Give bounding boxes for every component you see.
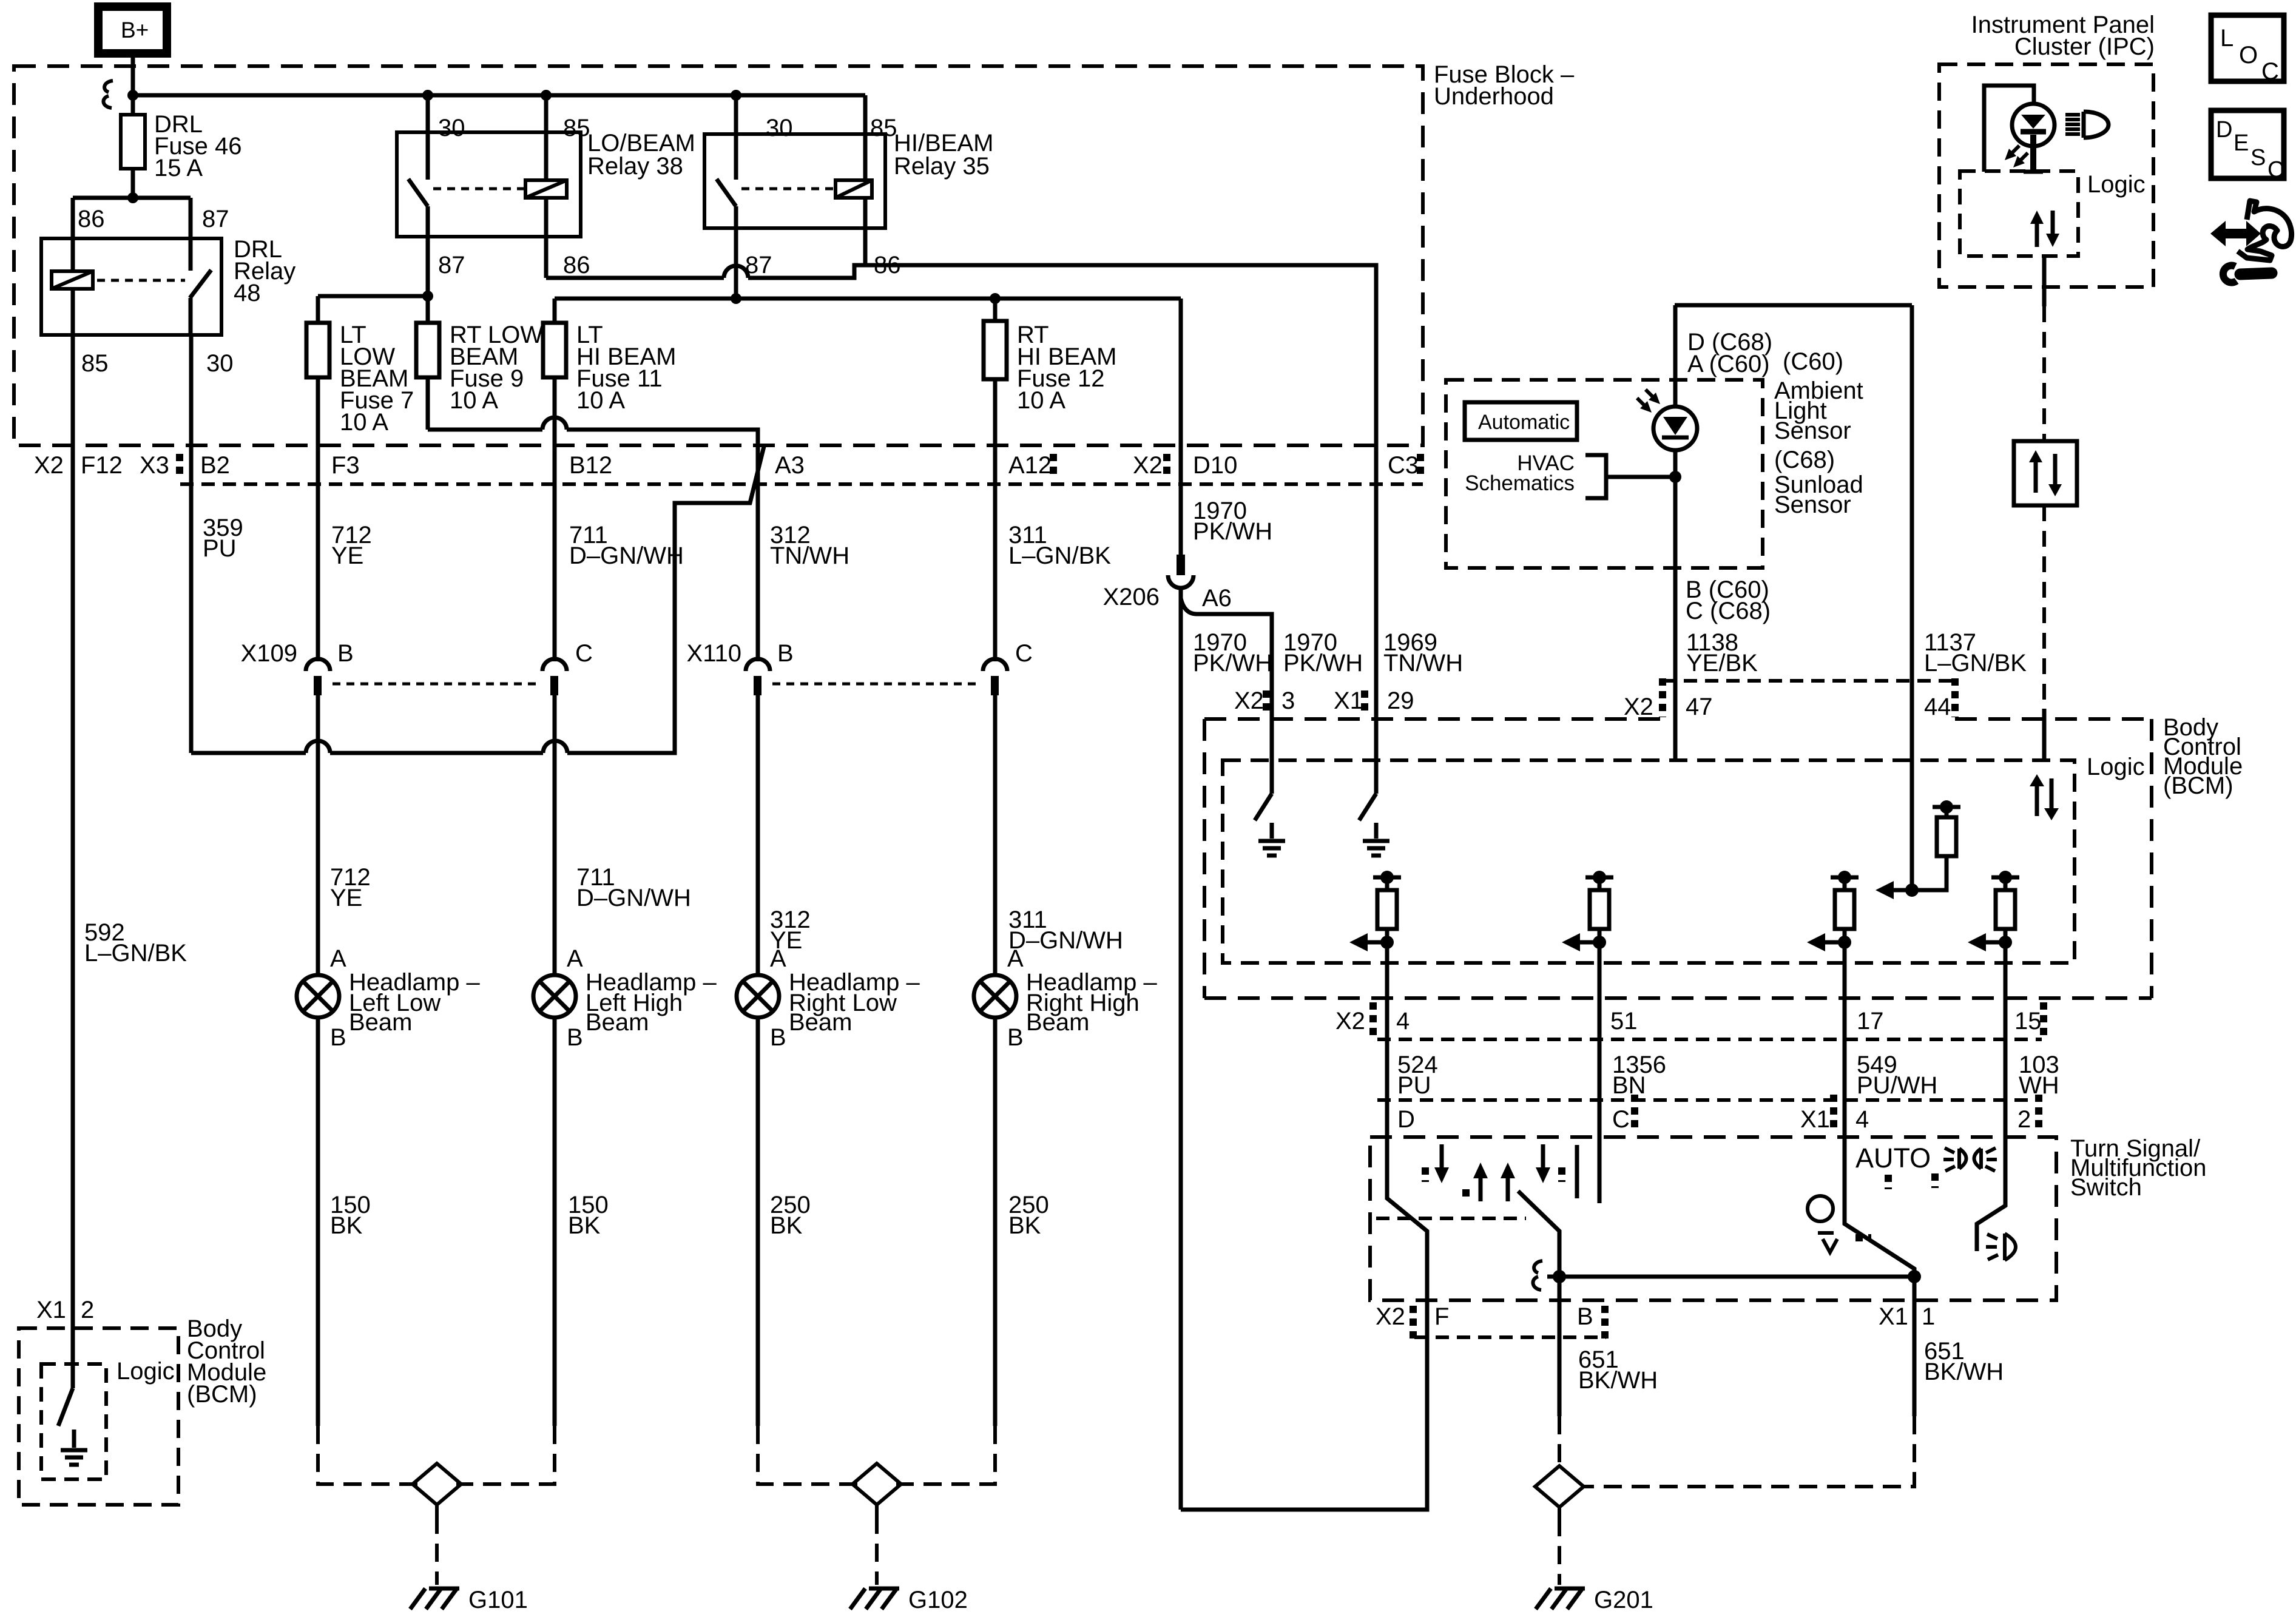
connector X110 pin B: [746, 659, 770, 695]
svg-text:D–GN/WH: D–GN/WH: [569, 542, 684, 569]
wire 359 crossover loop: [191, 447, 764, 753]
icon service double arrow: [2210, 221, 2261, 246]
svg-text:D: D: [2216, 117, 2232, 143]
svg-text:A (C60): A (C60): [1687, 351, 1770, 377]
svg-text:10 A: 10 A: [576, 387, 625, 414]
svg-text:PU: PU: [203, 535, 237, 562]
svg-text:85: 85: [870, 115, 897, 141]
connector X2 output labels: [1335, 1008, 2042, 1035]
svg-text:30: 30: [766, 115, 793, 141]
svg-text:E: E: [2234, 130, 2249, 156]
sensor box ambient light / sunload: [1675, 303, 1912, 308]
svg-text:YE/BK: YE/BK: [1686, 650, 1758, 677]
svg-text:C: C: [1612, 1106, 1630, 1133]
connector tick X1-4: [1830, 1095, 1837, 1127]
relay K35 switch blade: [717, 179, 736, 228]
resistor BCM driver for pin44: [1876, 800, 1960, 899]
connector tick X2-3: [1263, 690, 1270, 716]
connector X109 pin C: [542, 659, 567, 695]
svg-text:PU/WH: PU/WH: [1857, 1072, 1937, 1099]
label 312 TN/WH: [770, 522, 849, 569]
svg-text:Automatic: Automatic: [1478, 411, 1570, 434]
relay K38 switch blade: [408, 179, 428, 237]
connector X110 pin C: [983, 659, 1007, 695]
svg-text:B: B: [1577, 1303, 1593, 1330]
svg-text:Cluster (IPC): Cluster (IPC): [2014, 33, 2155, 60]
svg-text:Relay 38: Relay 38: [587, 153, 683, 180]
wire serial data link: [2042, 256, 2047, 441]
svg-text:Beam: Beam: [586, 1009, 649, 1036]
wire B+ feed: [131, 53, 135, 198]
connector labels X2 3: [1234, 687, 1295, 714]
svg-text:17: 17: [1857, 1008, 1884, 1035]
wire serial link to BCM: [2042, 505, 2046, 760]
connector switch input labels: [1397, 1106, 2031, 1133]
svg-text:X110: X110: [687, 640, 741, 667]
wire switch pin 2 stub: [1977, 1100, 2005, 1251]
wire 651 BK/WH left: [1559, 1277, 1658, 1466]
connector tick 15: [2040, 1002, 2047, 1035]
svg-text:30: 30: [438, 115, 465, 141]
icon headlamp IPC: [2065, 112, 2109, 138]
switch auto blade: [1845, 1100, 1914, 1277]
svg-text:85: 85: [81, 350, 109, 377]
connector X206 inline: [1103, 555, 1232, 612]
wire dashed splice to G101: [435, 1516, 439, 1585]
svg-text:X1: X1: [1334, 687, 1363, 714]
relay K48 switch: [190, 238, 211, 335]
svg-text:F12: F12: [81, 452, 123, 479]
svg-text:2: 2: [2017, 1106, 2031, 1133]
connector tick X1-29: [1361, 690, 1368, 716]
wire to relay48 pin86: [71, 198, 75, 238]
lamp Headlamp Left High Beam: [533, 945, 717, 1051]
fuse F9 RT LOW BEAM Fuse 9: [416, 322, 543, 414]
splice diamond at G102: [853, 1463, 901, 1505]
BCM2 switch blade: [58, 1388, 73, 1426]
svg-text:BN: BN: [1612, 1072, 1646, 1099]
wire 359 B2 down: [189, 335, 194, 753]
switch AUTO contact: [1808, 1143, 1931, 1252]
svg-text:85: 85: [563, 115, 590, 141]
wire fuse11 output: [553, 377, 557, 445]
svg-text:O: O: [2239, 42, 2258, 69]
svg-text:10 A: 10 A: [450, 387, 498, 414]
sensor pin labels D A: [1687, 329, 1843, 377]
BCM2 label: [187, 1315, 266, 1408]
switch headlamp blade: [1518, 1191, 1559, 1277]
fuse block label: [1434, 61, 1575, 110]
svg-text:A: A: [567, 945, 583, 972]
svg-text:87: 87: [202, 206, 229, 232]
svg-text:L–GN/BK: L–GN/BK: [1008, 542, 1111, 569]
svg-text:10 A: 10 A: [340, 409, 388, 436]
HVAC dashed box: [1446, 380, 1763, 568]
svg-text:B: B: [1007, 1024, 1024, 1051]
wire fuse12 output: [993, 379, 998, 445]
svg-text:10 A: 10 A: [1017, 387, 1065, 414]
wire 1969 TN/WH to BCM pin 29: [1374, 445, 1379, 794]
BCM1 serial data arrows: [2030, 774, 2059, 820]
wire 592 F12 down: [71, 335, 75, 1388]
BCM2 logic dashed box: [41, 1358, 175, 1479]
svg-text:X109: X109: [241, 640, 297, 667]
svg-text:A: A: [1007, 945, 1024, 972]
relay K35 pin labels: [745, 115, 901, 279]
svg-text:A12: A12: [1008, 452, 1052, 479]
svg-text:15: 15: [2014, 1008, 2042, 1035]
switch contact stub: [1575, 1145, 1579, 1198]
label 712 YE first: [331, 522, 372, 569]
svg-text:X3: X3: [140, 452, 169, 479]
relay K48 coil: [52, 238, 93, 335]
lamp Headlamp Right High Beam: [974, 945, 1157, 1051]
BCM1 logic dashed box: [1223, 754, 2145, 963]
svg-text:Sensor: Sensor: [1774, 417, 1851, 444]
svg-text:X1: X1: [36, 1297, 66, 1323]
svg-text:Logic: Logic: [116, 1358, 175, 1385]
resistor BCM driver at 3040: [1807, 871, 1859, 951]
svg-text:Beam: Beam: [1026, 1009, 1090, 1036]
svg-text:B: B: [770, 1024, 786, 1051]
connector tick C: [1631, 1095, 1638, 1127]
svg-text:F: F: [1434, 1303, 1449, 1330]
relay K38 LO/BEAM Relay 38 box: [397, 130, 695, 237]
label 1970 PK/WH branch: [1283, 629, 1363, 677]
relay K48 DRL Relay 48 box: [41, 236, 295, 335]
svg-text:Beam: Beam: [349, 1009, 413, 1036]
wire relay coils control line to C3: [546, 265, 1376, 445]
sensor labels: [1774, 377, 1863, 518]
svg-text:C: C: [2261, 58, 2279, 85]
svg-text:4: 4: [1396, 1008, 1410, 1035]
svg-text:Logic: Logic: [2087, 754, 2145, 780]
label 1970 PK/WH at D10: [1193, 498, 1272, 545]
connector tick X2-D10: [1163, 454, 1170, 479]
svg-text:3: 3: [1281, 687, 1295, 714]
svg-text:86: 86: [563, 252, 590, 279]
serial data gateway box: [2014, 441, 2077, 505]
connector tick 2: [2035, 1095, 2042, 1127]
DESC reference box: [2211, 110, 2284, 183]
svg-text:L–GN/BK: L–GN/BK: [1924, 650, 2027, 677]
wire 311 D-GN/WH to lamp: [995, 695, 1123, 975]
connector X1 pin 2 labels: [36, 1297, 94, 1323]
relay K35 HI/BEAM Relay 35 box: [704, 130, 993, 228]
indicator lamp LED: [1984, 86, 2055, 172]
ground BCM1 pin3 internal: [1258, 823, 1285, 856]
connector bottom row line: [1414, 1335, 1606, 1339]
label 1356 BN: [1612, 1052, 1666, 1099]
connector bottom row labels: [1376, 1303, 1935, 1330]
wire to relay48 pin87: [189, 198, 193, 238]
svg-text:Sensor: Sensor: [1774, 491, 1851, 518]
svg-text:X2: X2: [34, 452, 64, 479]
lamp Headlamp Left Low Beam: [297, 945, 480, 1051]
wire 651 BK/WH right: [1584, 1277, 2004, 1487]
svg-text:2: 2: [81, 1297, 94, 1323]
connector X109 pin B: [306, 659, 330, 695]
svg-text:B: B: [567, 1024, 583, 1051]
svg-text:A3: A3: [775, 452, 805, 479]
connector tick B: [1601, 1306, 1609, 1338]
svg-text:D: D: [1397, 1106, 1415, 1133]
svg-text:G101: G101: [468, 1587, 528, 1613]
wire 712 down to X109: [316, 445, 320, 661]
svg-text:TN/WH: TN/WH: [1383, 650, 1463, 677]
wire D10 feed: [1179, 299, 1183, 445]
IPC instrument panel cluster dashed box: [1939, 12, 2155, 287]
BCM1 switch blade pin3: [1255, 794, 1272, 820]
connector tick X3: [176, 454, 183, 479]
svg-text:X2: X2: [1234, 687, 1264, 714]
ground BCM2 internal: [61, 1430, 87, 1465]
svg-text:51: 51: [1610, 1008, 1638, 1035]
svg-text:A: A: [330, 945, 346, 972]
svg-text:PK/WH: PK/WH: [1193, 518, 1272, 545]
relay K35 actuator dashed link: [741, 187, 836, 191]
fuse F7 LT LOW BEAM Fuse 7: [306, 322, 414, 436]
ground BCM1 pin29 internal: [1363, 823, 1389, 856]
svg-text:C: C: [1015, 640, 1033, 667]
splice diamond at G201: [1535, 1466, 1584, 1507]
svg-text:D10: D10: [1193, 452, 1237, 479]
connector tick X2-4: [1369, 1002, 1377, 1035]
svg-text:Beam: Beam: [789, 1009, 853, 1036]
svg-text:AUTO: AUTO: [1855, 1143, 1931, 1173]
svg-text:X1: X1: [1800, 1106, 1830, 1133]
wire 150 BK left low: [318, 1018, 371, 1426]
icon headlamp flash: [1935, 1148, 1997, 1188]
label 1969 TN/WH: [1383, 629, 1463, 677]
wire hi-beam fuse feed line: [555, 293, 1181, 304]
svg-text:B: B: [777, 640, 794, 667]
svg-text:B2: B2: [200, 452, 230, 479]
svg-text:BK: BK: [568, 1212, 601, 1239]
connector X110 labels: [687, 640, 1033, 667]
connector X2 output row: [1377, 1038, 2042, 1041]
wire switch pin C: [1598, 1100, 1602, 1203]
svg-text:1: 1: [1922, 1303, 1935, 1330]
label 1970 PK/WH splice side: [1193, 629, 1272, 677]
svg-text:(BCM): (BCM): [2163, 772, 2234, 799]
wire dashed to splice G102: [758, 1426, 995, 1484]
svg-text:B+: B+: [121, 18, 149, 42]
BCM1 body control module dashed box: [1204, 714, 2243, 998]
fuse F11 LT HI BEAM Fuse 11: [543, 299, 676, 414]
BCM2 body control module dashed box: [19, 1328, 178, 1505]
wire 1138 YE/BK: [1675, 450, 1771, 760]
wire continuation curl: [103, 81, 113, 108]
svg-text:BK: BK: [1008, 1212, 1041, 1239]
wire dashed to splice G101: [318, 1426, 555, 1484]
wire 711 D-GN/WH to lamp: [555, 695, 691, 975]
wire fuse7 output: [316, 377, 320, 445]
svg-text:(C60): (C60): [1783, 348, 1843, 375]
svg-text:BK/WH: BK/WH: [1924, 1359, 2004, 1385]
LOC reference box: [2211, 15, 2284, 85]
wire top bus: [127, 90, 865, 101]
label 359 PU: [203, 515, 243, 562]
connector X2 47/44 dotted row: [1624, 678, 1955, 720]
label 524 PU: [1397, 1052, 1438, 1099]
relay K38 pin 30 stub: [426, 95, 430, 180]
svg-text:BK: BK: [330, 1212, 363, 1239]
svg-text:C (C68): C (C68): [1686, 598, 1771, 624]
wire fuse9 output cross line: [428, 377, 758, 445]
svg-text:Logic: Logic: [2087, 171, 2146, 198]
svg-text:Relay 35: Relay 35: [894, 153, 990, 180]
photodiode ambient light sensor: [1637, 305, 1697, 450]
wire switch pin D: [1181, 1100, 1427, 1510]
fuse F46 DRL Fuse 46 15A: [121, 111, 242, 181]
svg-text:Underhood: Underhood: [1434, 83, 1554, 110]
svg-text:X206: X206: [1103, 584, 1160, 610]
connector X109 dashed link: [333, 683, 541, 686]
connector row line X3: [180, 482, 1423, 486]
svg-text:C: C: [2267, 157, 2284, 183]
wire 712 YE to lamp: [318, 695, 371, 975]
svg-text:4: 4: [1855, 1106, 1869, 1133]
svg-text:(BCM): (BCM): [187, 1381, 257, 1408]
label 311 L-GN/BK: [1008, 522, 1111, 569]
ground G101: [410, 1587, 528, 1613]
svg-text:44: 44: [1924, 694, 1951, 720]
label 103 WH: [2019, 1052, 2059, 1099]
wire 312 down to X110: [756, 445, 760, 661]
connector X109 labels: [241, 640, 593, 667]
svg-text:PK/WH: PK/WH: [1193, 650, 1272, 677]
relay K38 coil: [525, 95, 567, 278]
label 711 D-GN/WH first: [569, 522, 684, 569]
wire BCM outputs to switch pins: [1387, 942, 2005, 1100]
svg-text:X1: X1: [1879, 1303, 1908, 1330]
relay K35 coil: [836, 95, 872, 265]
label 549 PU/WH: [1857, 1052, 1937, 1099]
wire 1970 PK/WH main run: [1179, 588, 1183, 1510]
node fuse46 output: [73, 192, 191, 203]
HVAC schematics reference: [1465, 451, 1681, 498]
wire relay35 pin87 feed: [731, 228, 741, 304]
svg-text:C: C: [575, 640, 593, 667]
svg-text:TN/WH: TN/WH: [770, 542, 849, 569]
svg-text:X2: X2: [1335, 1008, 1365, 1035]
svg-text:48: 48: [234, 280, 261, 306]
icon service wrench: [2223, 266, 2272, 283]
wire 1970 PK/WH D10 to X206: [1179, 445, 1183, 555]
svg-text:PK/WH: PK/WH: [1283, 650, 1363, 677]
svg-text:G201: G201: [1594, 1587, 1653, 1613]
svg-text:BK: BK: [770, 1212, 803, 1239]
connector tick X2-F: [1410, 1306, 1417, 1338]
svg-text:PU: PU: [1397, 1072, 1431, 1099]
switch contact strip: [1376, 1217, 1526, 1220]
svg-text:Switch: Switch: [2070, 1174, 2142, 1201]
Automatic box: [1465, 402, 1577, 440]
resistor BCM driver at 2636: [1562, 871, 1613, 951]
svg-text:A: A: [770, 945, 786, 972]
svg-text:BK/WH: BK/WH: [1578, 1367, 1658, 1394]
svg-text:L: L: [2220, 25, 2234, 52]
svg-text:L–GN/BK: L–GN/BK: [84, 940, 187, 967]
svg-text:G102: G102: [908, 1587, 968, 1613]
relay K38 actuator dashed link: [433, 187, 525, 191]
svg-text:X2: X2: [1376, 1303, 1405, 1330]
fuse block underhood dashed box: [14, 66, 1423, 445]
wire dashed splice to G102: [875, 1516, 879, 1585]
svg-text:S: S: [2250, 145, 2266, 170]
relay K35 pin 30 stub: [734, 95, 738, 180]
svg-text:B12: B12: [569, 452, 612, 479]
svg-text:47: 47: [1686, 694, 1713, 720]
wire dashed splice to G201: [1558, 1518, 1561, 1585]
wire 250 BK right low: [758, 1018, 811, 1426]
switch position arrows: [1425, 1144, 1562, 1201]
wire 711 down to X109: [553, 445, 557, 661]
connector row X2/X3 labels: [34, 452, 1419, 479]
icon service outline: [2238, 201, 2292, 260]
splice diamond at G101: [413, 1463, 461, 1505]
svg-text:X2: X2: [1624, 694, 1653, 720]
relay K38 pin labels: [438, 115, 590, 279]
connector X110 dashed link: [772, 683, 981, 686]
svg-text:D–GN/WH: D–GN/WH: [576, 885, 691, 911]
svg-text:X2: X2: [1133, 452, 1163, 479]
resistor BCM driver at 2286: [1349, 871, 1401, 951]
connector switch input row: [1377, 1098, 2039, 1102]
ground G201: [1536, 1587, 1653, 1613]
connector labels X1 29: [1334, 687, 1414, 714]
svg-text:C3: C3: [1388, 452, 1419, 479]
resistor BCM driver at 3305: [1968, 871, 2019, 951]
wire continuation curl switch: [1533, 1261, 1542, 1290]
ground G102: [850, 1587, 968, 1613]
fuse F12 RT HI BEAM Fuse 12: [984, 299, 1116, 414]
svg-text:Schematics: Schematics: [1465, 471, 1575, 495]
svg-text:YE: YE: [330, 885, 362, 911]
icon headlamp on: [1986, 1234, 2016, 1260]
B+ battery terminal: [98, 7, 167, 53]
connector tick C3: [1417, 454, 1424, 479]
relay K48 actuator dashed link: [97, 279, 185, 282]
svg-text:F3: F3: [331, 452, 360, 479]
IPC logic dashed box: [1960, 171, 2146, 256]
connector tick A12: [1050, 454, 1057, 479]
wire 312 YE to lamp: [758, 695, 811, 975]
svg-text:B: B: [330, 1024, 346, 1051]
label 592 L-GN/BK: [84, 919, 187, 967]
svg-text:(C68): (C68): [1774, 447, 1835, 473]
wire 150 BK left high: [555, 1018, 609, 1426]
svg-text:29: 29: [1387, 687, 1414, 714]
wire 1970 PK/WH branch to BCM pin 3: [1181, 598, 1272, 794]
wire relay38 pin87 to fuses: [318, 237, 433, 323]
BCM1 switch blade pin29: [1359, 794, 1376, 820]
switch Turn Signal Multifunction box: [1370, 1135, 2207, 1300]
wire 250 BK right high: [995, 1018, 1049, 1426]
switch output bus: [1547, 1270, 1921, 1283]
svg-text:15 A: 15 A: [154, 155, 203, 181]
svg-text:86: 86: [78, 206, 105, 232]
wire 311 down to X110: [993, 445, 998, 661]
svg-text:B: B: [337, 640, 354, 667]
svg-text:87: 87: [438, 252, 465, 279]
lamp Headlamp Right Low Beam: [737, 945, 920, 1051]
svg-text:A6: A6: [1202, 585, 1232, 612]
svg-text:YE: YE: [331, 542, 363, 569]
wire 1137 L-GN/BK: [1912, 305, 2027, 890]
svg-text:D–GN/WH: D–GN/WH: [1008, 927, 1123, 954]
